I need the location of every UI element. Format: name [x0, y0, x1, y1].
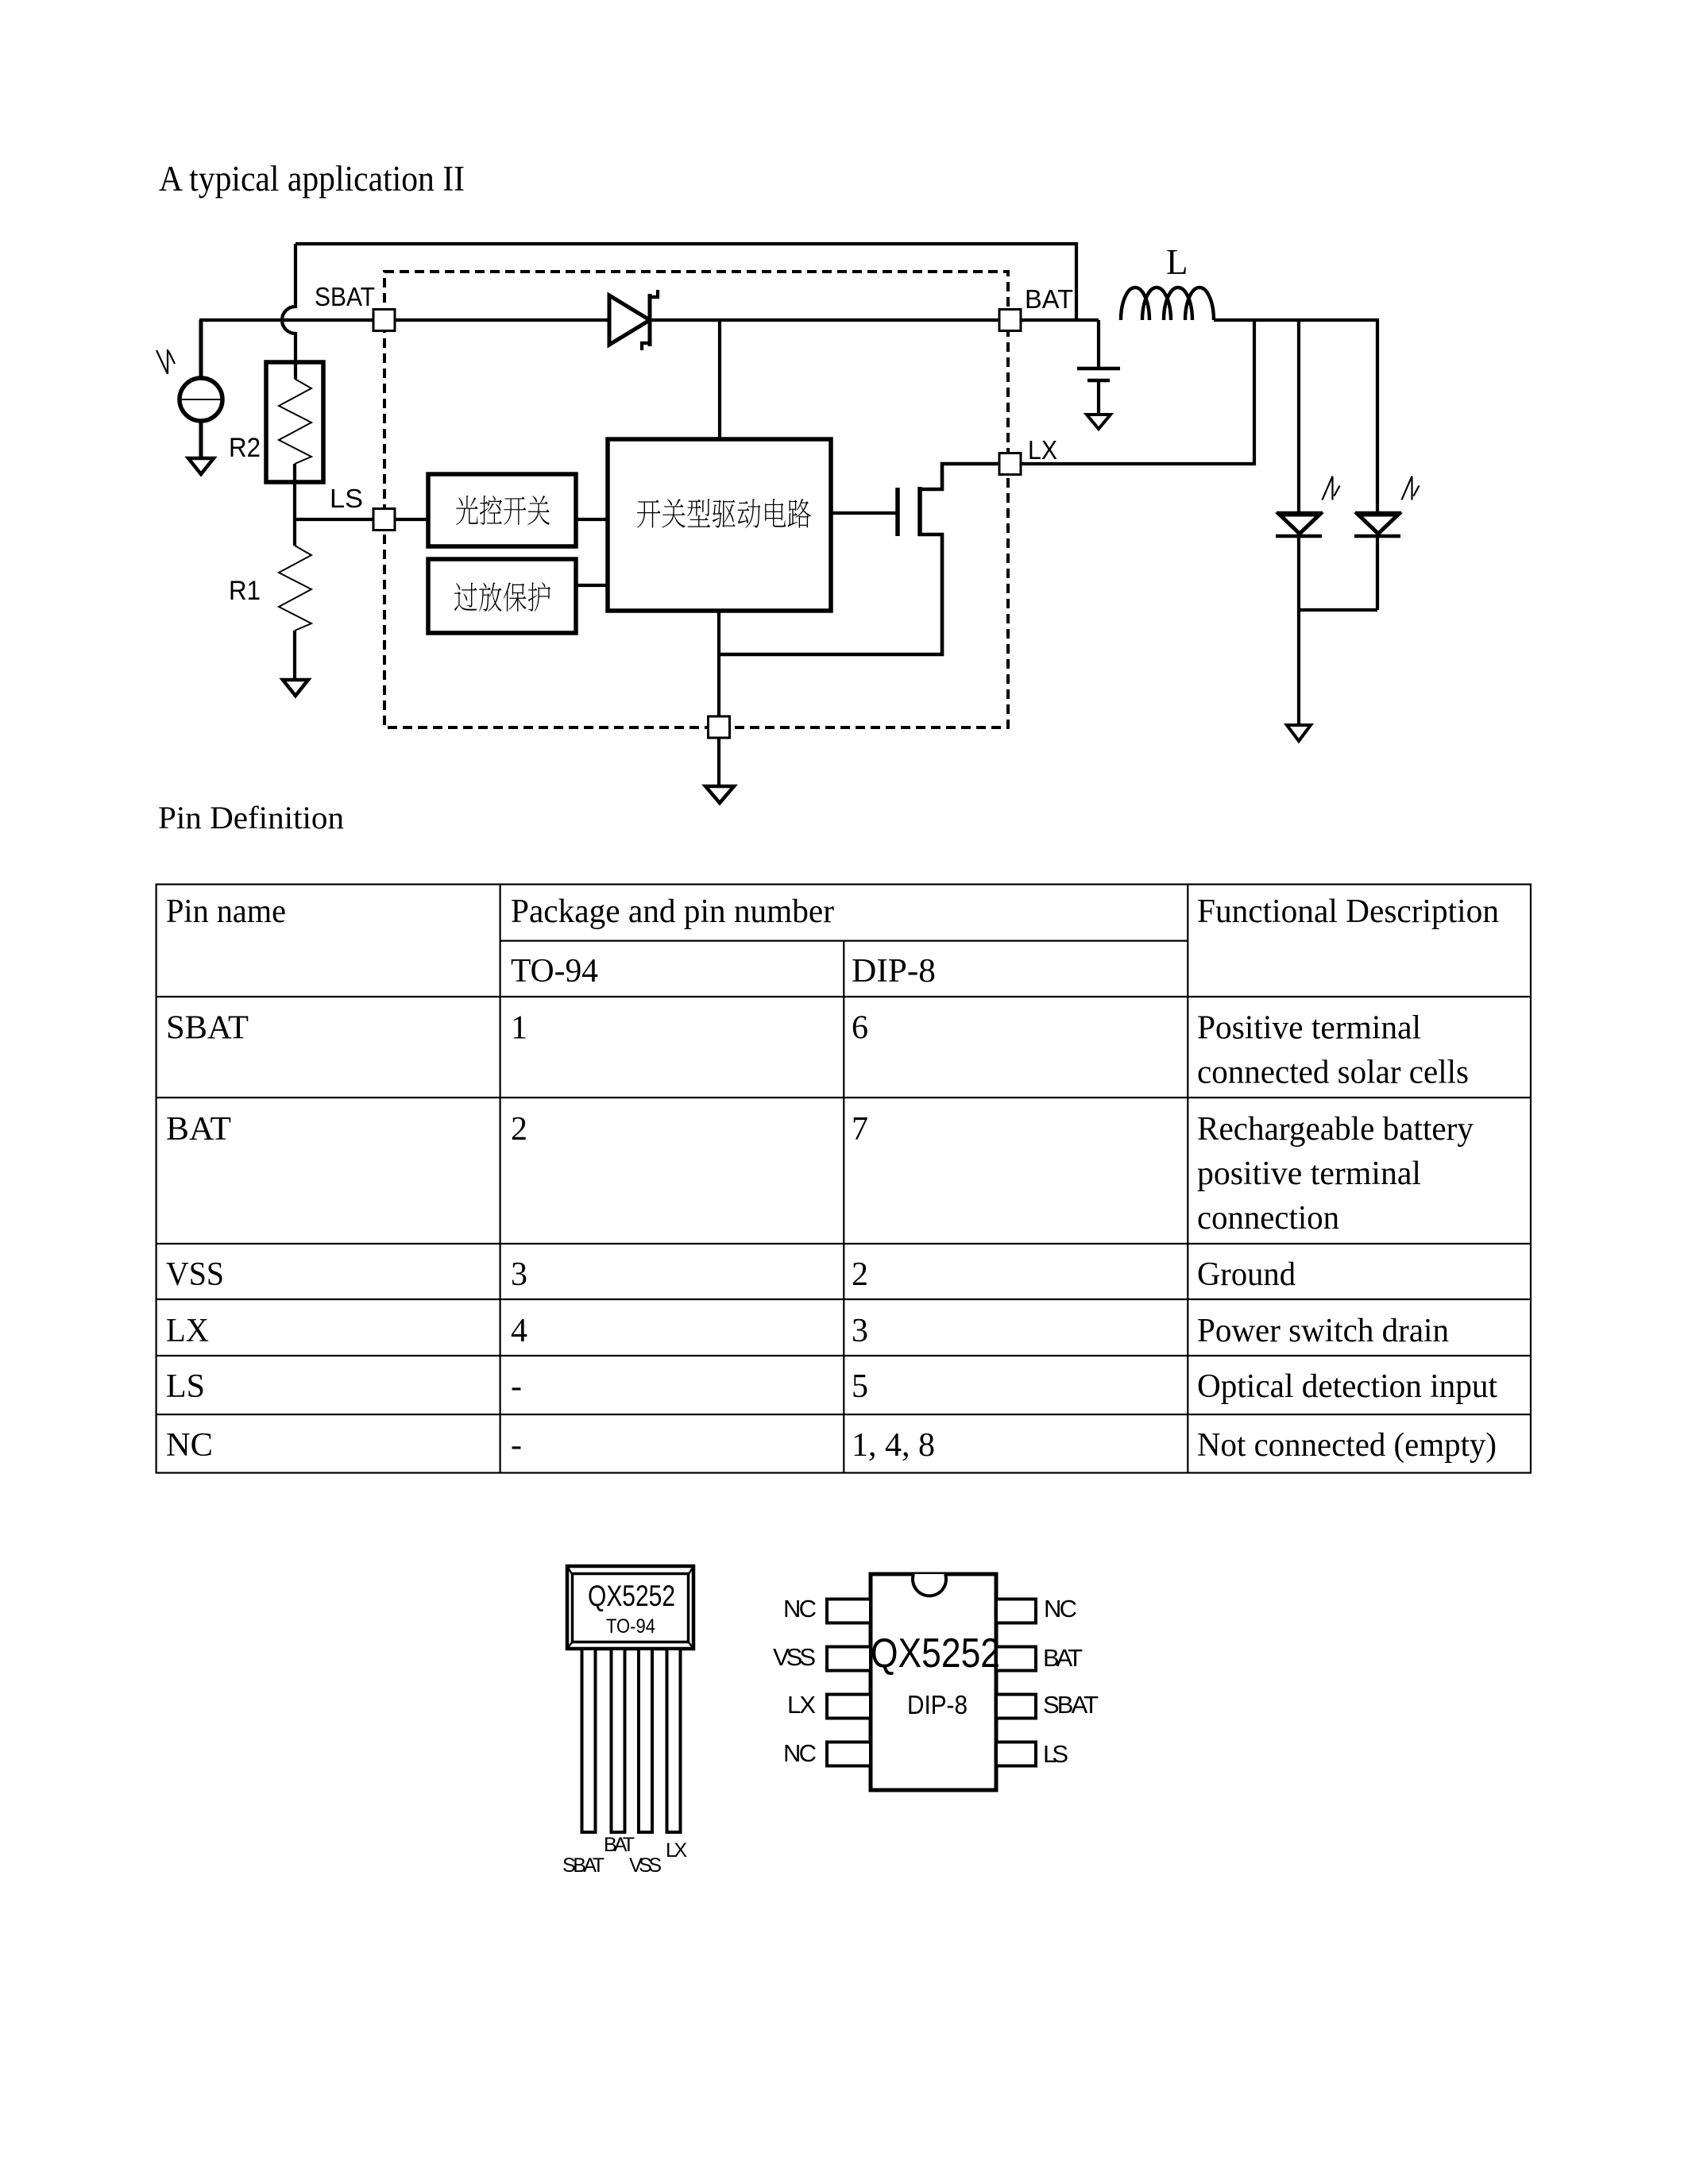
DIP-8 left pins — [827, 1599, 871, 1766]
TO-94 legs — [582, 1649, 681, 1832]
table: pin definition grid — [156, 885, 1531, 1473]
ground (R1) — [283, 680, 308, 696]
svg-text:-: - — [511, 1368, 522, 1405]
svg-text:QX5252: QX5252 — [871, 1630, 1000, 1677]
table: row LS — [166, 1368, 1497, 1405]
svg-text:A typical application II: A typical application II — [159, 159, 465, 199]
svg-text:2: 2 — [852, 1256, 868, 1293]
DIP-8 right pins — [996, 1599, 1036, 1766]
svg-text:TO-94: TO-94 — [606, 1615, 655, 1638]
svg-text:SBAT: SBAT — [562, 1854, 605, 1877]
solar cell light arrows — [156, 349, 175, 374]
LED D3 light arrows — [1402, 477, 1420, 500]
wire: vertical from top rail with hop over main rail, down to R2 — [282, 244, 295, 379]
svg-text:BAT: BAT — [1025, 284, 1073, 314]
svg-text:LS: LS — [330, 484, 363, 513]
svg-text:3: 3 — [852, 1313, 868, 1349]
svg-text:SBAT: SBAT — [166, 1010, 249, 1047]
svg-text:1, 4, 8: 1, 4, 8 — [852, 1427, 935, 1464]
svg-text:Not connected (empty): Not connected (empty) — [1197, 1427, 1497, 1464]
svg-text:VSS: VSS — [166, 1256, 224, 1293]
svg-text:Functional Description: Functional Description — [1197, 893, 1499, 930]
svg-text:R1: R1 — [229, 576, 261, 606]
svg-text:SBAT: SBAT — [1043, 1691, 1099, 1719]
svg-text:Ground: Ground — [1197, 1256, 1296, 1293]
package DIP-8 body — [871, 1574, 996, 1790]
wire: inductor to LED branch — [1214, 320, 1377, 513]
svg-text:VSS: VSS — [629, 1854, 662, 1877]
svg-text:BAT: BAT — [166, 1111, 231, 1148]
wire: top rail from SBAT hop to BAT corner — [295, 244, 1076, 320]
svg-text:Power switch drain: Power switch drain — [1197, 1313, 1449, 1349]
block 光控开关 (light-control switch) — [428, 474, 576, 546]
table: row LX — [166, 1313, 1449, 1349]
wire: LS node tee — [295, 518, 428, 521]
svg-text:connection: connection — [1197, 1200, 1339, 1237]
table: header row — [166, 893, 1499, 990]
table: row NC — [166, 1427, 1497, 1464]
svg-text:4: 4 — [511, 1313, 527, 1349]
svg-text:Pin Definition: Pin Definition — [158, 800, 344, 835]
svg-text:QX5252: QX5252 — [588, 1580, 675, 1612]
battery BT1 — [1097, 320, 1100, 367]
svg-text:DIP-8: DIP-8 — [852, 953, 936, 990]
wire: main horizontal rail (solar cell to diode to BAT) — [199, 318, 1099, 322]
DIP-8 notch — [913, 1574, 946, 1596]
block 过放保护 (over-discharge protection) — [428, 559, 576, 633]
LED D2 light arrows — [1323, 477, 1340, 500]
wire: LED cathodes to ground — [1299, 536, 1377, 724]
svg-text:VSS: VSS — [773, 1643, 816, 1671]
pin BAT — [999, 310, 1021, 331]
svg-text:TO-94: TO-94 — [511, 953, 598, 990]
IC boundary (dashed) — [384, 272, 1008, 727]
wire: VSS pin to ground — [717, 737, 720, 786]
resistor R1 — [293, 519, 296, 546]
table: row BAT — [166, 1111, 1474, 1237]
svg-text:L: L — [1166, 242, 1188, 282]
pin SBAT — [373, 310, 395, 331]
svg-text:2: 2 — [511, 1111, 527, 1148]
svg-text:7: 7 — [852, 1111, 868, 1148]
table: row SBAT — [166, 1010, 1469, 1091]
svg-text:LS: LS — [1043, 1740, 1068, 1768]
svg-text:NC: NC — [783, 1595, 817, 1623]
ground (LEDs) — [1287, 725, 1311, 741]
inductor L — [1121, 287, 1214, 320]
ground (solar cell) — [188, 458, 214, 474]
svg-text:Positive terminal: Positive terminal — [1197, 1010, 1421, 1047]
wire: 光控开关 to driver — [576, 518, 608, 521]
wire: diode cathode junction down to driver block — [718, 320, 721, 439]
svg-text:5: 5 — [852, 1368, 868, 1405]
ground (VSS) — [705, 786, 734, 803]
svg-text:Optical detection input: Optical detection input — [1197, 1368, 1497, 1405]
svg-text:Package and pin number: Package and pin number — [511, 893, 834, 930]
svg-text:Rechargeable battery: Rechargeable battery — [1197, 1111, 1474, 1148]
transistor Q1 NMOS power switch — [831, 511, 898, 515]
resistor R2 (photoresistor box) — [266, 362, 323, 482]
package TO-94 body — [567, 1566, 693, 1649]
block 开关型驱动电路 (switching driver circuit) — [608, 439, 831, 611]
pin LS — [373, 509, 395, 531]
svg-text:BAT: BAT — [1043, 1644, 1083, 1672]
svg-text:positive terminal: positive terminal — [1197, 1156, 1421, 1192]
wire: LX net from pin to inductor node — [1021, 320, 1254, 464]
LED D3 — [1355, 511, 1401, 515]
svg-text:R2: R2 — [229, 433, 261, 463]
svg-text:NC: NC — [783, 1739, 817, 1767]
table: row VSS — [166, 1256, 1296, 1293]
svg-text:1: 1 — [511, 1010, 527, 1047]
svg-text:DIP-8: DIP-8 — [907, 1690, 968, 1719]
wire: driver block bottom to VSS — [717, 611, 720, 716]
svg-text:LS: LS — [166, 1368, 205, 1405]
svg-text:LX: LX — [1028, 435, 1057, 465]
pin VSS — [709, 716, 730, 738]
svg-text:NC: NC — [166, 1427, 213, 1464]
svg-text:Pin name: Pin name — [166, 893, 286, 930]
svg-text:LX: LX — [666, 1839, 687, 1862]
svg-text:SBAT: SBAT — [315, 282, 375, 311]
svg-text:6: 6 — [852, 1010, 868, 1047]
svg-text:LX: LX — [166, 1313, 209, 1349]
svg-text:connected solar cells: connected solar cells — [1197, 1055, 1469, 1091]
svg-text:NC: NC — [1044, 1595, 1077, 1623]
svg-text:3: 3 — [511, 1256, 527, 1293]
wire: 过放保护 to driver — [576, 584, 608, 587]
ground (battery) — [1087, 415, 1111, 429]
svg-text:-: - — [511, 1427, 522, 1464]
pin LX — [999, 453, 1021, 475]
svg-text:BAT: BAT — [604, 1834, 635, 1856]
diode D1 schottky — [609, 295, 650, 345]
solar cell PV (current source) — [199, 320, 203, 457]
svg-text:LX: LX — [787, 1691, 816, 1719]
LED D2 — [1277, 511, 1323, 515]
